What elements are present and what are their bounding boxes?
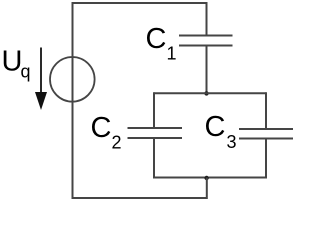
- wire left (source branch, x=72): [72, 2, 74, 199]
- svg-text:U: U: [2, 46, 23, 78]
- wire from bottom junction down to bottom wire: [206, 178, 208, 200]
- capacitor C1: [179, 36, 233, 46]
- svg-text:2: 2: [112, 133, 122, 153]
- svg-text:3: 3: [227, 132, 237, 152]
- capacitor C2: [128, 128, 183, 138]
- node junction top (dot): [204, 91, 208, 95]
- svg-text:C: C: [205, 111, 226, 143]
- voltage source U_q (circle): [50, 57, 95, 102]
- wire C3 branch upper: [265, 92, 267, 129]
- wire C3 branch lower: [265, 139, 267, 179]
- wire C2 branch upper: [153, 92, 155, 128]
- capacitor C3: [239, 129, 293, 139]
- wire top (from left branch to C1 branch): [72, 2, 208, 4]
- wire C1 branch lower (C1 bottom plate down to top rail): [206, 46, 208, 95]
- wire C1 branch upper (top wire down to C1 top plate): [206, 2, 208, 35]
- arrow of source voltage U_q: [35, 48, 47, 111]
- wire C2 branch lower: [153, 138, 155, 179]
- svg-text:C: C: [146, 23, 167, 55]
- svg-text:C: C: [91, 112, 112, 144]
- node junction bottom (dot): [204, 176, 208, 180]
- wire top rail of parallel section: [154, 92, 267, 94]
- wire bottom rail of parallel section: [153, 177, 267, 179]
- wire bottom: [72, 197, 208, 199]
- svg-text:1: 1: [167, 44, 177, 64]
- svg-text:q: q: [21, 62, 31, 82]
